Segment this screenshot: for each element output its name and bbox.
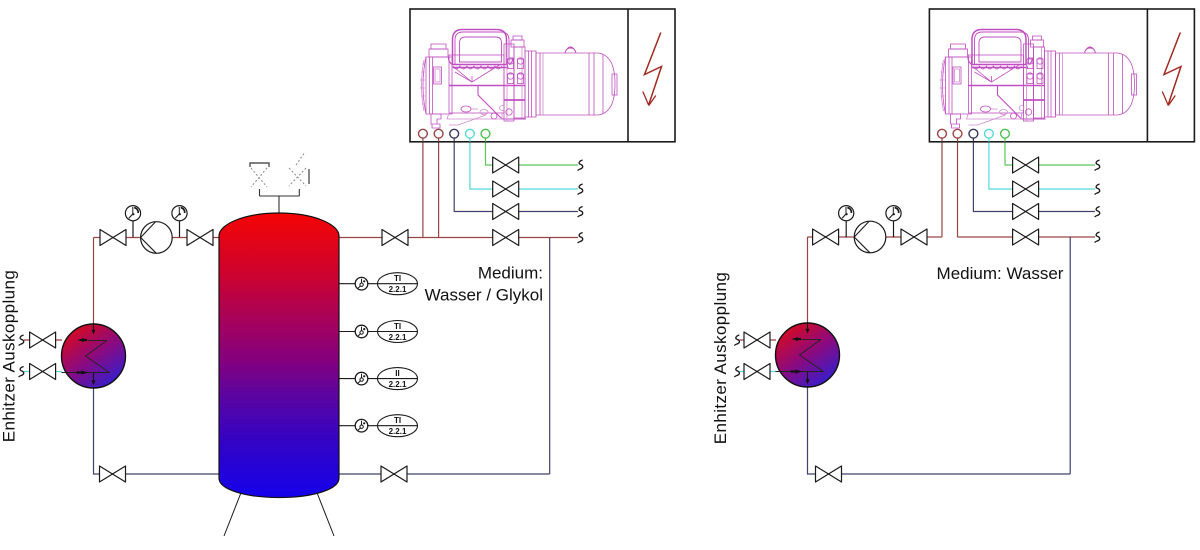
wire: compressor connection 2 drop (dark red) <box>957 138 959 237</box>
sensor row 1 link and stadium TI 2.2.1 <box>368 273 418 295</box>
compressor box right <box>929 9 1194 142</box>
wire: return riser to bottom pipe (navy) <box>549 238 551 475</box>
wire: HX upper tap (dark red) <box>24 339 62 341</box>
heat exchanger W1R <box>776 322 840 387</box>
svg-text:Enhitzer Auskopplung: Enhitzer Auskopplung <box>711 272 730 444</box>
compressor unit U2 <box>940 30 1137 129</box>
pipe break mark navy <box>578 207 583 218</box>
pipe break mark green R <box>1095 160 1100 171</box>
valve V7 navy line <box>493 204 519 220</box>
valve V6R cyan line <box>1013 181 1039 197</box>
valve V2 supply right <box>187 230 213 246</box>
svg-text:II: II <box>395 369 399 378</box>
connection node 3R (navy) <box>969 129 978 142</box>
wire: bottom return from heat exchanger (navy) <box>808 387 1071 475</box>
svg-text:Medium: Wasser: Medium: Wasser <box>937 264 1064 283</box>
wire: return riser (navy) <box>1069 237 1071 474</box>
svg-text:2.2.1: 2.2.1 <box>389 427 407 436</box>
gauge PI2 <box>172 206 187 238</box>
pipe break mark green <box>578 160 583 171</box>
sensor row 2 stub <box>339 331 355 333</box>
valve V8R bottom <box>816 466 842 482</box>
valve V9 bottom right <box>381 466 407 482</box>
connection node 5 (green) <box>481 129 490 142</box>
wire: green line from connection 5 <box>486 138 579 165</box>
sensor row 3 stub <box>339 378 355 380</box>
connection node 1 (dark red) <box>419 129 428 142</box>
wire: tank outlet header to break (dark red) <box>339 237 578 239</box>
connection node 4R (cyan) <box>985 129 994 142</box>
sensor row 3 circle <box>355 372 368 385</box>
pump P1R <box>854 221 886 253</box>
connection node 2 (dark red) <box>434 129 443 142</box>
wire: cyan line from connection 4 <box>470 138 578 189</box>
valve V2R supply right <box>901 229 927 245</box>
sensor row 1 stub <box>339 283 355 285</box>
wire: bottom return heat exchanger to tank (navy) <box>94 388 220 474</box>
valve V5 green line <box>493 157 519 173</box>
valve V10 HX tap upper <box>30 332 56 348</box>
svg-text:Enhitzer Auskopplung: Enhitzer Auskopplung <box>0 270 19 442</box>
wire: compressor connection 1 drop (dark red) <box>422 138 424 238</box>
wire: navy line from connection 3 <box>454 138 578 212</box>
sensor row 1 circle <box>355 277 368 290</box>
safety valve symbol right (faint) <box>289 152 309 186</box>
wire: supply riser from heat exchanger (dark red) <box>807 237 809 324</box>
connection node 5R (green) <box>1001 129 1010 142</box>
sensor row 3 link and stadium II 2.2.1 <box>368 368 418 390</box>
svg-text:TI: TI <box>394 416 401 425</box>
svg-text:2.2.1: 2.2.1 <box>389 380 407 389</box>
valve V11 HX tap lower <box>30 364 56 380</box>
wire: top supply header to buffer tank (dark red) <box>94 237 220 239</box>
wire: HX lower tap (cyan) <box>24 371 62 373</box>
connection node 1R (dark red) <box>938 129 947 142</box>
pipe break mark cyan R <box>1095 184 1100 195</box>
wire: HX lower tap (cyan) <box>740 371 777 373</box>
pipe break mark HX upper R <box>734 335 739 346</box>
tank top fitting <box>260 189 300 213</box>
pipe break mark navy R <box>1095 207 1100 218</box>
lightning bolt symbol left <box>643 33 662 106</box>
heat exchanger W1 <box>62 323 126 388</box>
pipe break mark red header R <box>1095 232 1100 243</box>
valve V3 tank outlet <box>382 230 408 246</box>
valve V4R red line <box>1013 229 1039 245</box>
valve V6 cyan line <box>493 181 519 197</box>
sensor row 4 link and stadium TI 2.2.1 <box>368 415 418 437</box>
wire: riser to compressor connection 1 (dark red) <box>941 138 943 237</box>
gauge PI1 <box>125 206 140 238</box>
wire: compressor connection 2 drop (dark red) <box>438 138 440 238</box>
sensor row 2 link and stadium TI 2.2.1 <box>368 321 418 343</box>
connection node 4 (cyan) <box>466 129 475 142</box>
valve V7R navy line <box>1013 204 1039 220</box>
wire: bottom return tank to riser (navy) <box>339 473 550 475</box>
valve V1 supply left <box>100 230 126 246</box>
valve V1R supply left <box>813 229 839 245</box>
svg-text:2.2.1: 2.2.1 <box>389 285 407 294</box>
pipe break mark HX lower R <box>734 367 739 378</box>
pipe break mark red header <box>578 233 583 244</box>
svg-text:TI: TI <box>394 322 401 331</box>
wire: red header to break (dark red) <box>958 236 1096 238</box>
pump P1 <box>141 222 173 254</box>
compressor box left <box>410 9 675 142</box>
compressor unit U1 <box>420 30 617 129</box>
pipe break mark cyan <box>578 184 583 195</box>
compressor box divider right <box>1146 9 1148 142</box>
gauge PI1R <box>839 206 854 238</box>
wire: supply riser from heat exchanger to top header (dark red) <box>93 238 95 325</box>
wire: navy line from connection 3 <box>973 138 1095 212</box>
tank leg right <box>312 480 334 536</box>
svg-text:TI: TI <box>394 274 401 283</box>
pipe break mark HX lower <box>19 367 24 378</box>
valve V8 bottom left <box>100 466 126 482</box>
sensor row 2 circle <box>355 325 368 338</box>
compressor box divider <box>627 9 629 142</box>
safety valve symbol left (faint) <box>250 163 269 187</box>
sensor row 4 stub <box>339 425 355 427</box>
svg-text:Medium:: Medium: <box>478 264 543 283</box>
valve V10R HX tap upper <box>744 332 770 348</box>
valve V11R HX tap lower <box>744 364 770 380</box>
lightning bolt symbol right <box>1162 33 1181 106</box>
svg-text:2.2.1: 2.2.1 <box>389 333 407 342</box>
wire: top supply header (dark red) <box>808 236 943 238</box>
tank leg left <box>224 480 246 536</box>
sensor row 4 circle <box>355 419 368 432</box>
valve V4 red line <box>493 230 519 246</box>
pipe break mark HX upper <box>19 335 24 346</box>
connection node 2R (dark red) <box>953 129 962 142</box>
svg-text:Wasser / Glykol: Wasser / Glykol <box>425 286 543 305</box>
wire: HX upper tap (dark red) <box>740 339 777 341</box>
gauge PI2R <box>886 206 901 238</box>
buffer tank B1 <box>219 213 339 498</box>
valve V5R green line <box>1013 157 1039 173</box>
connection node 3 (navy) <box>450 129 459 142</box>
wire: green line from connection 5 <box>1005 138 1095 165</box>
wire: cyan line from connection 4 <box>989 138 1095 189</box>
